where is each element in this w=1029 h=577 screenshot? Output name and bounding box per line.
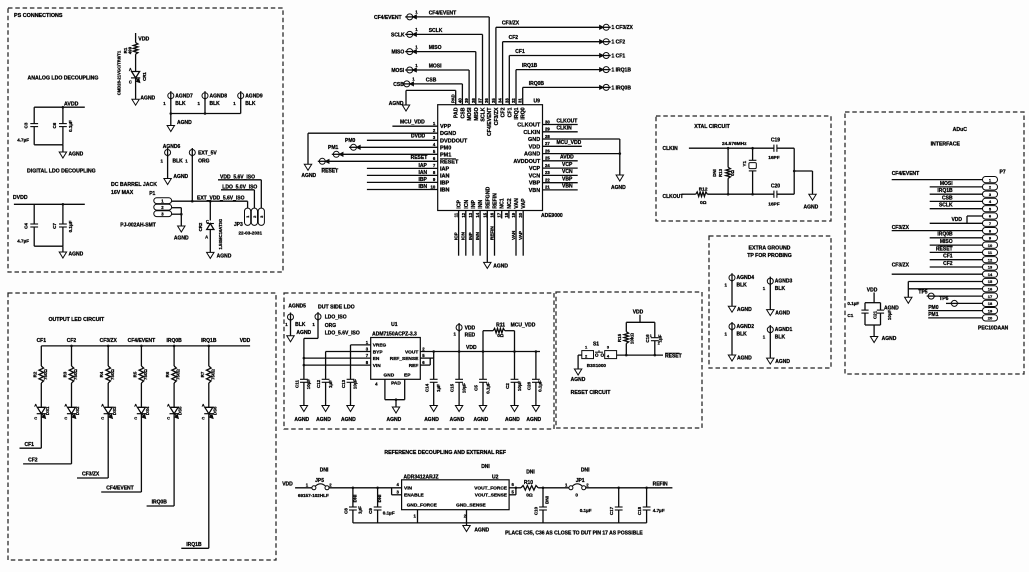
svg-text:C8: C8	[343, 508, 348, 514]
svg-text:DNI: DNI	[545, 496, 550, 504]
svg-text:BLK: BLK	[210, 101, 221, 107]
svg-text:TP6: TP6	[939, 296, 948, 302]
svg-text:AGND9: AGND9	[245, 94, 263, 100]
svg-text:10µF: 10µF	[517, 381, 522, 392]
svg-text:BLK: BLK	[775, 286, 786, 292]
svg-text:ANALOG LDO DECOUPLING: ANALOG LDO DECOUPLING	[28, 76, 99, 82]
svg-text:26: 26	[545, 148, 550, 153]
svg-text:JP5: JP5	[315, 478, 324, 484]
svg-text:10µF: 10µF	[887, 310, 892, 320]
svg-text:PM1: PM1	[328, 145, 339, 151]
svg-text:AGND: AGND	[571, 377, 586, 383]
svg-text:C: C	[206, 219, 209, 224]
svg-text:BLK: BLK	[175, 101, 186, 107]
svg-text:CSB: CSB	[460, 107, 466, 118]
svg-text:499: 499	[128, 46, 133, 54]
svg-text:DNI: DNI	[481, 464, 490, 470]
svg-text:1.5SMC16AT3G: 1.5SMC16AT3G	[218, 219, 223, 250]
svg-text:750Ω: 750Ω	[43, 369, 48, 380]
svg-text:IBN: IBN	[440, 188, 450, 194]
svg-text:BLK: BLK	[295, 322, 306, 328]
svg-text:4.7µF: 4.7µF	[17, 238, 29, 243]
svg-text:20: 20	[988, 316, 993, 321]
svg-text:CSB: CSB	[942, 195, 953, 201]
svg-text:AGND: AGND	[177, 120, 192, 126]
svg-text:R13: R13	[718, 168, 723, 177]
svg-text:RED: RED	[465, 333, 476, 339]
svg-text:AGND: AGND	[316, 417, 331, 423]
svg-text:C21: C21	[872, 310, 877, 319]
svg-text:10µF: 10µF	[306, 379, 311, 390]
svg-text:C19: C19	[771, 138, 780, 144]
svg-text:VOUT_SENSE: VOUT_SENSE	[475, 493, 508, 499]
svg-text:IAN: IAN	[440, 173, 450, 179]
svg-text:VAN: VAN	[511, 230, 516, 240]
svg-text:C15: C15	[450, 383, 455, 392]
svg-text:A: A	[202, 403, 205, 408]
svg-text:AGND1: AGND1	[775, 327, 793, 333]
svg-text:20: 20	[518, 212, 523, 217]
svg-text:C: C	[167, 416, 170, 421]
svg-text:INN: INN	[475, 231, 480, 240]
svg-text:CF1: CF1	[515, 49, 525, 55]
svg-text:750Ω: 750Ω	[210, 369, 215, 380]
svg-text:NC2: NC2	[507, 198, 513, 208]
svg-text:12: 12	[988, 257, 993, 262]
svg-text:CF1: CF1	[507, 107, 513, 117]
svg-text:1 CF1: 1 CF1	[612, 53, 626, 59]
svg-text:REFIN: REFIN	[493, 193, 499, 209]
svg-text:VBN: VBN	[529, 188, 541, 194]
svg-text:ADuC: ADuC	[953, 127, 968, 133]
svg-text:CF3/ZX: CF3/ZX	[502, 21, 520, 27]
svg-text:EXT_5V: EXT_5V	[198, 150, 217, 156]
svg-text:ADM7150ACPZ-3.3: ADM7150ACPZ-3.3	[372, 332, 417, 338]
svg-text:15: 15	[988, 279, 993, 284]
svg-text:30: 30	[545, 119, 550, 124]
svg-text:VBN: VBN	[562, 184, 573, 190]
svg-text:AGND: AGND	[775, 359, 790, 365]
svg-text:R4: R4	[99, 371, 104, 377]
svg-text:IRQ0B: IRQ0B	[529, 81, 545, 87]
svg-text:AGND: AGND	[387, 417, 402, 423]
svg-text:ORG: ORG	[198, 158, 210, 164]
svg-text:1 IRQ1B: 1 IRQ1B	[612, 68, 632, 74]
svg-text:DNI: DNI	[353, 495, 358, 503]
svg-text:BLK: BLK	[737, 332, 748, 338]
svg-text:40: 40	[457, 98, 462, 103]
svg-text:MOSI: MOSI	[391, 68, 404, 74]
svg-text:CR2: CR2	[198, 222, 203, 231]
svg-text:CF2: CF2	[28, 458, 38, 464]
svg-text:RESET CIRCUIT: RESET CIRCUIT	[571, 390, 612, 396]
svg-text:C10: C10	[533, 506, 538, 515]
svg-text:AGND: AGND	[173, 174, 188, 180]
svg-text:19: 19	[988, 308, 993, 313]
svg-text:U2: U2	[492, 474, 499, 480]
svg-text:R5: R5	[132, 371, 137, 377]
svg-text:RESET: RESET	[411, 155, 428, 161]
svg-text:C: C	[134, 416, 137, 421]
svg-text:U1: U1	[391, 322, 398, 328]
svg-text:R7: R7	[200, 371, 205, 377]
svg-text:INTERFACE: INTERFACE	[931, 142, 961, 148]
svg-text:CLKIN: CLKIN	[663, 146, 679, 152]
svg-text:AGND8: AGND8	[210, 94, 228, 100]
svg-text:VDD: VDD	[138, 37, 149, 43]
svg-text:SCLK: SCLK	[429, 28, 443, 34]
svg-text:750Ω: 750Ω	[143, 369, 148, 380]
svg-text:31: 31	[518, 98, 523, 103]
svg-text:10µF: 10µF	[461, 383, 466, 394]
svg-text:R12: R12	[699, 187, 708, 193]
svg-text:CF3/ZX: CF3/ZX	[494, 107, 500, 125]
svg-text:CF1: CF1	[37, 338, 47, 344]
svg-text:1µF: 1µF	[436, 384, 441, 392]
svg-text:R2: R2	[32, 371, 37, 377]
svg-text:0.1µF: 0.1µF	[538, 380, 543, 392]
svg-text:BLK: BLK	[737, 283, 748, 289]
svg-text:C7: C7	[52, 223, 57, 229]
svg-text:REF_SENSE: REF_SENSE	[390, 356, 419, 362]
svg-text:AVDD: AVDD	[560, 155, 574, 161]
svg-text:750Ω: 750Ω	[110, 369, 115, 380]
svg-text:IRQ1B: IRQ1B	[186, 542, 202, 548]
svg-text:IRQ0B: IRQ0B	[166, 338, 182, 344]
svg-text:A: A	[205, 234, 208, 239]
svg-text:A: A	[64, 403, 67, 408]
svg-text:IRQ1B: IRQ1B	[937, 188, 953, 194]
svg-text:AGND: AGND	[217, 253, 232, 259]
svg-text:IRQ1B: IRQ1B	[201, 338, 217, 344]
svg-text:A: A	[134, 403, 137, 408]
svg-text:LDO_5.6V_ISO: LDO_5.6V_ISO	[325, 331, 360, 337]
svg-text:DGND: DGND	[440, 131, 456, 137]
svg-text:MCU_VDD: MCU_VDD	[400, 120, 425, 126]
svg-text:34: 34	[498, 98, 503, 103]
svg-text:69157-102HLF: 69157-102HLF	[298, 493, 329, 498]
svg-text:24.576MHz: 24.576MHz	[722, 141, 747, 147]
svg-text:REFIN: REFIN	[489, 226, 494, 240]
svg-text:PAD: PAD	[451, 94, 456, 103]
svg-text:AGND: AGND	[524, 152, 540, 158]
svg-text:27: 27	[545, 141, 550, 146]
svg-text:16PF: 16PF	[768, 202, 780, 208]
svg-text:29: 29	[545, 127, 550, 132]
svg-text:PM1: PM1	[440, 152, 451, 158]
svg-text:12: 12	[461, 212, 466, 217]
svg-text:C11: C11	[295, 380, 300, 389]
svg-text:32: 32	[511, 98, 516, 103]
svg-text:JP3: JP3	[234, 222, 243, 228]
svg-text:C9: C9	[368, 508, 373, 514]
svg-text:C13: C13	[341, 379, 346, 388]
svg-text:AGND: AGND	[526, 417, 541, 423]
svg-text:AGND: AGND	[301, 173, 316, 179]
svg-text:DVDDOUT: DVDDOUT	[440, 138, 468, 144]
svg-text:R11: R11	[496, 323, 505, 329]
svg-text:C1: C1	[847, 313, 853, 318]
svg-text:DIGITAL LDO DECOUPLING: DIGITAL LDO DECOUPLING	[27, 169, 96, 175]
svg-text:IRQ0B: IRQ0B	[937, 232, 953, 238]
svg-text:R3: R3	[63, 371, 68, 377]
svg-text:17: 17	[988, 294, 993, 299]
svg-text:PAD: PAD	[454, 107, 460, 118]
svg-text:GND: GND	[528, 137, 540, 143]
svg-text:C2: C2	[505, 383, 510, 389]
svg-text:ADE9000: ADE9000	[541, 213, 563, 219]
svg-text:Y1: Y1	[742, 161, 747, 167]
svg-text:VPP: VPP	[440, 124, 451, 130]
svg-text:18: 18	[988, 301, 993, 306]
svg-text:AGND7: AGND7	[175, 94, 193, 100]
svg-text:PM0: PM0	[928, 305, 939, 311]
svg-text:DS5: DS5	[178, 406, 183, 415]
svg-text:C: C	[129, 79, 132, 84]
svg-text:0Ω: 0Ω	[700, 200, 707, 206]
svg-text:35: 35	[491, 98, 496, 103]
svg-text:ICP: ICP	[453, 232, 458, 240]
svg-text:EP: EP	[404, 373, 411, 379]
svg-text:R15: R15	[617, 333, 622, 342]
svg-text:PAD: PAD	[391, 380, 401, 386]
svg-text:VDD: VDD	[867, 287, 878, 293]
svg-text:CF3/ZX: CF3/ZX	[892, 262, 910, 268]
svg-text:PS CONNECTIONS: PS CONNECTIONS	[14, 13, 63, 19]
svg-text:AGND: AGND	[611, 185, 626, 191]
svg-text:DNI: DNI	[526, 469, 535, 475]
svg-text:AGND4: AGND4	[737, 275, 755, 281]
svg-text:VDD: VDD	[282, 481, 293, 487]
svg-text:AGND: AGND	[174, 236, 189, 242]
svg-text:EXT_VDD_5.6V_ISO: EXT_VDD_5.6V_ISO	[197, 195, 245, 201]
svg-text:RESET: RESET	[665, 353, 682, 359]
svg-text:0: 0	[575, 493, 578, 498]
svg-text:AGND: AGND	[474, 527, 489, 533]
svg-text:C26: C26	[526, 381, 531, 390]
svg-text:37: 37	[478, 98, 483, 103]
svg-text:1µF: 1µF	[357, 506, 362, 514]
svg-text:CF3/ZX: CF3/ZX	[82, 472, 100, 478]
svg-text:IRQ1: IRQ1	[514, 107, 520, 119]
svg-text:NC1: NC1	[500, 198, 506, 208]
svg-text:13: 13	[468, 212, 473, 217]
svg-text:CF1: CF1	[25, 442, 35, 448]
svg-text:ENABLE: ENABLE	[404, 493, 425, 499]
svg-text:23: 23	[545, 170, 550, 175]
svg-text:C14: C14	[424, 383, 429, 392]
svg-text:25: 25	[545, 156, 550, 161]
svg-text:GND_FORCE: GND_FORCE	[407, 503, 438, 509]
svg-text:AGND: AGND	[389, 101, 404, 107]
svg-text:VIN: VIN	[404, 485, 413, 491]
svg-text:ORG: ORG	[325, 323, 337, 329]
svg-text:DS1: DS1	[45, 406, 50, 415]
svg-text:REF: REF	[409, 363, 419, 369]
svg-text:VCP: VCP	[562, 162, 573, 168]
svg-text:AGND6: AGND6	[163, 144, 181, 150]
svg-text:DNI: DNI	[320, 468, 329, 474]
svg-text:IBP: IBP	[419, 177, 428, 183]
svg-text:DS6: DS6	[212, 406, 217, 415]
svg-text:AGND: AGND	[493, 263, 508, 269]
svg-text:CF4/EVENT: CF4/EVENT	[892, 171, 920, 177]
svg-text:AGND: AGND	[424, 417, 439, 423]
svg-text:MISO: MISO	[429, 45, 442, 51]
svg-text:AGND3: AGND3	[775, 279, 793, 285]
svg-text:AGND: AGND	[140, 95, 155, 101]
svg-text:CF4/EVENT: CF4/EVENT	[128, 338, 156, 344]
svg-text:ICN: ICN	[461, 231, 466, 240]
svg-text:XTAL CIRCUIT: XTAL CIRCUIT	[694, 124, 730, 130]
svg-text:SCLK: SCLK	[939, 203, 953, 209]
svg-text:0.1µF: 0.1µF	[847, 301, 859, 306]
svg-text:MOSI: MOSI	[467, 107, 473, 121]
svg-text:1: 1	[650, 334, 652, 338]
svg-text:BLK: BLK	[245, 101, 256, 107]
svg-text:MISO: MISO	[392, 50, 405, 56]
svg-text:MISO: MISO	[940, 239, 953, 245]
svg-text:CLKOUT: CLKOUT	[557, 118, 578, 124]
svg-text:U9: U9	[534, 98, 541, 104]
svg-text:PM1: PM1	[928, 312, 939, 318]
svg-text:16: 16	[988, 287, 993, 292]
svg-text:24: 24	[545, 163, 550, 168]
svg-text:GND: GND	[384, 373, 395, 379]
svg-text:A: A	[129, 67, 132, 72]
svg-text:C: C	[34, 416, 37, 421]
svg-text:C12: C12	[316, 379, 321, 388]
svg-text:AGND: AGND	[804, 205, 819, 211]
svg-text:AGND: AGND	[737, 356, 752, 362]
svg-text:DUT SIDE LDO: DUT SIDE LDO	[318, 304, 355, 310]
svg-text:0.1µF: 0.1µF	[68, 220, 73, 232]
svg-text:AGND: AGND	[69, 252, 84, 258]
svg-text:1 CF3/ZX: 1 CF3/ZX	[612, 25, 634, 31]
svg-text:16: 16	[490, 212, 495, 217]
svg-text:P7: P7	[1000, 170, 1006, 176]
svg-text:REFIN: REFIN	[653, 481, 668, 487]
svg-text:JP1: JP1	[576, 478, 585, 484]
svg-text:18: 18	[504, 212, 509, 217]
svg-text:INN: INN	[478, 200, 484, 209]
svg-text:CF1: CF1	[943, 254, 953, 260]
svg-text:GND_SENSE: GND_SENSE	[456, 503, 486, 509]
svg-text:CLKOUT: CLKOUT	[663, 194, 684, 200]
svg-text:10kΩ: 10kΩ	[630, 333, 635, 345]
svg-text:VBP: VBP	[529, 181, 541, 187]
svg-text:VCP: VCP	[529, 166, 541, 172]
svg-text:VDD: VDD	[633, 310, 644, 316]
svg-text:RESET: RESET	[936, 246, 953, 252]
svg-text:10: 10	[988, 243, 993, 248]
svg-text:AGND: AGND	[69, 152, 84, 158]
svg-text:CF4/EVENT: CF4/EVENT	[487, 107, 493, 136]
svg-text:IAP: IAP	[419, 163, 428, 169]
svg-text:SCLK: SCLK	[481, 107, 487, 121]
svg-text:REFERENCE DECOUPLING AND EXTER: REFERENCE DECOUPLING AND EXTERNAL REF	[384, 450, 506, 456]
svg-text:DNI: DNI	[581, 468, 590, 474]
svg-text:R10: R10	[524, 480, 533, 486]
svg-text:MOSI: MOSI	[940, 181, 953, 187]
svg-text:IBP: IBP	[440, 180, 450, 186]
svg-text:ICP: ICP	[457, 200, 463, 209]
svg-text:MOSI: MOSI	[429, 63, 442, 69]
svg-text:1 IRQ0B: 1 IRQ0B	[612, 85, 632, 91]
svg-text:14: 14	[988, 272, 993, 277]
svg-text:CF2: CF2	[67, 338, 77, 344]
svg-text:OUTPUT LED CIRCUIT: OUTPUT LED CIRCUIT	[49, 317, 105, 323]
svg-text:36: 36	[484, 98, 489, 103]
svg-text:IBN: IBN	[419, 184, 428, 190]
svg-text:PJ-002AH-SMT: PJ-002AH-SMT	[120, 223, 156, 229]
svg-text:1 CF2: 1 CF2	[612, 40, 626, 46]
svg-text:AGND: AGND	[341, 417, 356, 423]
svg-text:C17: C17	[609, 506, 614, 515]
svg-text:16V MAX: 16V MAX	[111, 190, 134, 196]
svg-text:A: A	[101, 403, 104, 408]
svg-text:AGND: AGND	[474, 417, 489, 423]
svg-text:VDD: VDD	[951, 217, 962, 223]
svg-text:AGND2: AGND2	[737, 324, 755, 330]
svg-text:C5: C5	[474, 385, 479, 391]
svg-text:750Ω: 750Ω	[73, 369, 78, 380]
svg-text:DVDD: DVDD	[411, 134, 426, 140]
svg-text:VBP: VBP	[562, 177, 573, 183]
svg-text:0Ω: 0Ω	[526, 493, 533, 499]
svg-text:CSB: CSB	[393, 82, 404, 88]
svg-text:10µF: 10µF	[353, 379, 358, 390]
svg-text:DVDD: DVDD	[13, 195, 28, 201]
svg-text:DS3: DS3	[112, 406, 117, 415]
svg-text:33: 33	[504, 98, 509, 103]
svg-text:EN: EN	[373, 356, 380, 362]
svg-text:VOUT: VOUT	[405, 349, 418, 355]
svg-text:AGND: AGND	[296, 330, 311, 336]
svg-text:SCLK: SCLK	[391, 32, 405, 38]
svg-text:0.1µF: 0.1µF	[68, 120, 73, 132]
svg-text:BYP: BYP	[373, 349, 384, 355]
svg-text:VCN: VCN	[562, 169, 573, 175]
svg-text:VAP: VAP	[518, 231, 523, 240]
svg-text:AGND: AGND	[775, 310, 790, 316]
svg-text:CR1: CR1	[142, 72, 147, 81]
svg-text:0.1µF: 0.1µF	[485, 382, 490, 394]
svg-text:VAP: VAP	[521, 198, 527, 209]
svg-text:VDD: VDD	[466, 345, 477, 351]
svg-text:MCU_VDD: MCU_VDD	[557, 140, 582, 146]
svg-text:LDO_ISO: LDO_ISO	[325, 315, 347, 321]
svg-text:0.1µF: 0.1µF	[383, 510, 395, 515]
svg-text:CF4/EVENT: CF4/EVENT	[429, 10, 457, 16]
svg-text:CLKOUT: CLKOUT	[517, 123, 541, 129]
svg-text:C6: C6	[52, 122, 57, 128]
svg-text:VDD: VDD	[465, 326, 476, 332]
svg-text:22-03-2031: 22-03-2031	[239, 231, 263, 236]
svg-text:REFGND: REFGND	[485, 187, 491, 209]
svg-text:C: C	[202, 416, 205, 421]
svg-text:0Ω: 0Ω	[497, 333, 504, 339]
svg-text:C: C	[64, 416, 67, 421]
svg-text:VIN: VIN	[373, 363, 382, 369]
svg-text:2: 2	[658, 342, 660, 346]
svg-text:AVDDOUT: AVDDOUT	[513, 159, 540, 165]
svg-text:A: A	[167, 403, 170, 408]
svg-text:B3S1000: B3S1000	[587, 363, 607, 368]
svg-text:17: 17	[497, 212, 502, 217]
svg-text:MISO: MISO	[474, 108, 480, 121]
svg-text:19: 19	[511, 212, 516, 217]
